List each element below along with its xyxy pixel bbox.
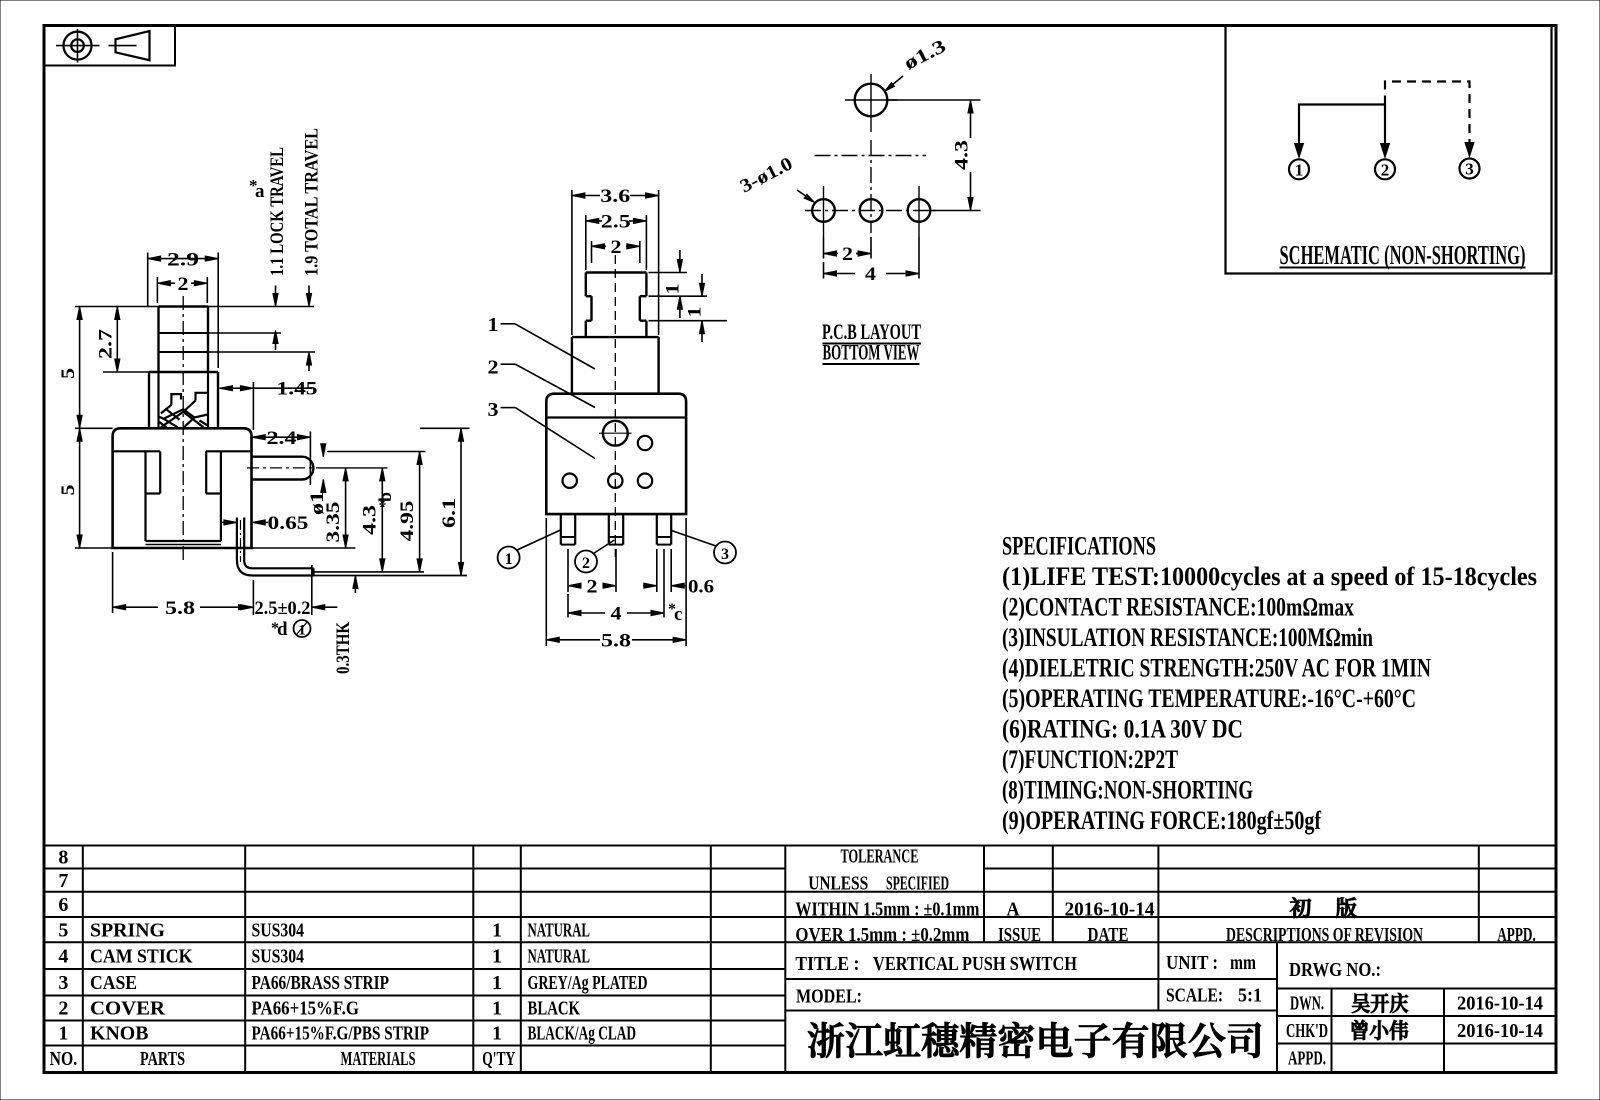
label 3-dia1.0 (737, 153, 815, 202)
svg-text:(9)OPERATING FORCE:180gf±50gf: (9)OPERATING FORCE:180gf±50gf (1002, 806, 1321, 835)
svg-text:PARTS: PARTS (140, 1048, 185, 1070)
dim 5 lower side (58, 428, 113, 548)
svg-text:1: 1 (492, 1023, 502, 1045)
svg-text:1: 1 (58, 1023, 68, 1045)
svg-text:APPD.: APPD. (1288, 1048, 1326, 1070)
svg-text:1: 1 (492, 945, 502, 967)
svg-text:0.65: 0.65 (268, 513, 309, 534)
svg-text:4: 4 (58, 945, 68, 967)
svg-text:c: c (674, 604, 682, 625)
svg-text:BLACK/Ag CLAD: BLACK/Ag CLAD (528, 1023, 637, 1045)
dim 5.8 front (546, 518, 686, 651)
schematic pin circle 3 (1460, 159, 1480, 179)
front centerline (614, 255, 616, 557)
svg-text:BLACK: BLACK (528, 998, 581, 1020)
svg-text:1: 1 (492, 998, 502, 1020)
svg-text:(2)CONTACT RESISTANCE:100mΩmax: (2)CONTACT RESISTANCE:100mΩmax (1002, 593, 1354, 622)
svg-text:DESCRIPTIONS OF REVISION: DESCRIPTIONS OF REVISION (1226, 924, 1423, 946)
front big hole (599, 421, 632, 446)
side view bent pin centerline (241, 520, 316, 572)
svg-text:(3)INSULATION RESISTANCE:100MΩ: (3)INSULATION RESISTANCE:100MΩmin (1002, 623, 1373, 652)
svg-text:4: 4 (611, 604, 623, 625)
pcb hole 1 (812, 186, 835, 237)
svg-text:2016-10-14: 2016-10-14 (1065, 899, 1155, 921)
front knob neck (586, 296, 647, 321)
svg-text:0.3THK: 0.3THK (333, 622, 354, 674)
label *d circled-1 (271, 619, 311, 640)
svg-text:1: 1 (488, 314, 499, 336)
svg-text:WITHIN 1.5mm : ±0.1mm: WITHIN 1.5mm : ±0.1mm (795, 899, 979, 921)
side view knob inner line b (159, 351, 209, 353)
svg-text:PA66+15%F.G: PA66+15%F.G (252, 998, 360, 1020)
svg-text:1: 1 (663, 284, 684, 295)
svg-text:(7)FUNCTION:2P2T: (7)FUNCTION:2P2T (1002, 745, 1178, 774)
svg-text:(6)RATING: 0.1A 30V DC: (6)RATING: 0.1A 30V DC (1002, 715, 1243, 744)
svg-text:4.95: 4.95 (397, 501, 418, 542)
label *a (249, 176, 265, 202)
svg-text:2: 2 (587, 576, 598, 597)
dim 2 front knob (592, 237, 640, 263)
dim 4.3*b (360, 468, 396, 572)
caption SCHEMATIC NON-SHORTING (1280, 240, 1526, 270)
dim 4 front pins (568, 549, 664, 625)
svg-text:5: 5 (58, 919, 68, 941)
front small hole upper right (638, 436, 652, 450)
front hole row left (563, 474, 577, 488)
svg-text:a: a (255, 181, 265, 202)
svg-text:NO.: NO. (50, 1048, 78, 1070)
svg-text:6.1: 6.1 (439, 498, 460, 528)
schematic arrow pin2 (1381, 144, 1390, 158)
schematic box (1226, 26, 1552, 274)
dim phi1 (307, 444, 328, 515)
svg-text:BOTTOM VIEW: BOTTOM VIEW (823, 340, 920, 365)
side view right slot (206, 451, 221, 541)
schematic pin circle 2 (1375, 159, 1395, 179)
svg-text:COVER: COVER (90, 998, 166, 1020)
pcb holes centerline (805, 210, 938, 212)
dim 2 front pins (568, 549, 616, 597)
svg-text:MATERIALS: MATERIALS (341, 1048, 416, 1070)
svg-text:5.8: 5.8 (165, 598, 195, 619)
schematic wire 1-2 solid (1299, 105, 1385, 148)
pcb hole 3 (908, 186, 931, 237)
parts table header (50, 1048, 516, 1070)
svg-text:DRWG NO.:: DRWG NO.: (1289, 959, 1381, 981)
schematic pin circle 1 (1289, 159, 1309, 179)
side view knob inner line a (159, 332, 209, 334)
svg-text:1: 1 (492, 972, 502, 994)
svg-text:2: 2 (842, 244, 853, 265)
dim 1.1 lock travel arrows (273, 286, 278, 351)
svg-text:1.1 LOCK TRAVEL: 1.1 LOCK TRAVEL (267, 147, 288, 276)
svg-text:1.45: 1.45 (277, 379, 318, 400)
svg-text:2: 2 (582, 555, 590, 572)
side view left slot (146, 451, 161, 541)
svg-text:DWN.: DWN. (1290, 993, 1324, 1015)
svg-text:(4)DIELETRIC STRENGTH:250V AC: (4)DIELETRIC STRENGTH:250V AC FOR 1MIN (1002, 654, 1431, 683)
svg-text:SUS304: SUS304 (252, 945, 305, 967)
dim 5.8 side (113, 552, 252, 619)
svg-text:A: A (1007, 899, 1020, 921)
pcb vertical centerline (870, 140, 872, 233)
side view bent pin (237, 518, 314, 576)
svg-text:mm: mm (1230, 952, 1256, 974)
unit cell (1166, 952, 1256, 974)
svg-text:TITLE :: TITLE : (795, 953, 859, 975)
parts table grid (44, 846, 1556, 1072)
svg-text:Q'TY: Q'TY (482, 1048, 515, 1070)
svg-text:4.3: 4.3 (952, 140, 973, 170)
dim 4 pcb (824, 237, 920, 285)
svg-text:2016-10-14: 2016-10-14 (1457, 1020, 1543, 1042)
svg-text:SPRING: SPRING (90, 919, 165, 941)
dim 5 upper side (58, 307, 82, 429)
side view side pin (252, 457, 314, 480)
schematic arrow pin3 (1465, 143, 1474, 157)
svg-text:3: 3 (1465, 160, 1474, 179)
svg-text:SPECIFICATIONS: SPECIFICATIONS (1002, 532, 1156, 561)
tolerance header (808, 846, 949, 895)
caption PCB LAYOUT (822, 319, 921, 344)
title row (795, 953, 1077, 975)
schematic wire 2-3 dashed (1385, 82, 1470, 148)
pcb big hole crosshair (845, 74, 898, 132)
dim 2.9 side (148, 249, 219, 368)
front pin 2 (609, 514, 623, 545)
svg-text:8: 8 (58, 847, 68, 869)
title block grid (785, 846, 1556, 1072)
dim 4.95 (327, 452, 426, 572)
side view plunger sides in collar (159, 372, 209, 428)
projection symbol box (44, 26, 175, 66)
svg-text:5: 5 (58, 485, 79, 496)
svg-text:5:1: 5:1 (1238, 985, 1262, 1007)
side view bent pin lower surface ext (252, 575, 467, 577)
pcb hole 2 (860, 199, 883, 222)
dim 4.3 pcb (888, 100, 981, 211)
case bottom extension right (252, 547, 356, 549)
schematic arrow pin1 (1295, 144, 1304, 158)
leader 3 case (488, 399, 596, 459)
svg-text:TOLERANCE: TOLERANCE (841, 846, 919, 868)
svg-text:5: 5 (58, 368, 79, 379)
svg-text:2: 2 (178, 274, 189, 295)
dim 1 cap height (649, 250, 708, 318)
side view knob centerline (182, 296, 184, 560)
svg-text:GREY/Ag PLATED: GREY/Ag PLATED (528, 972, 648, 994)
front hole row right (638, 474, 652, 488)
side view case outline (113, 428, 252, 548)
svg-text:2: 2 (1381, 161, 1390, 180)
dim 1.45 (220, 379, 318, 431)
dim 3.6 front (572, 186, 659, 335)
svg-text:SCHEMATIC (NON-SHORTING): SCHEMATIC (NON-SHORTING) (1280, 240, 1526, 270)
svg-text:VERTICAL PUSH SWITCH: VERTICAL PUSH SWITCH (873, 953, 1077, 975)
svg-text:2: 2 (611, 237, 622, 258)
svg-text:NATURAL: NATURAL (528, 945, 591, 967)
svg-text:2.4: 2.4 (267, 428, 298, 449)
svg-text:1: 1 (505, 551, 513, 568)
dim 2.5+-0.2 (240, 565, 337, 619)
svg-text:2.5±0.2: 2.5±0.2 (255, 598, 311, 619)
svg-text:3: 3 (488, 399, 499, 421)
company name zhejiang hongsui precision electronics co ltd (808, 1022, 1261, 1058)
svg-text:NATURAL: NATURAL (528, 919, 591, 941)
svg-text:CASE: CASE (90, 972, 137, 994)
front case outline (546, 394, 686, 514)
svg-text:2.9: 2.9 (167, 249, 199, 270)
svg-text:APPD.: APPD. (1497, 924, 1536, 946)
dim 0.65 (222, 513, 309, 534)
specifications text block (1002, 532, 1537, 836)
dim 2.5 front (586, 212, 647, 271)
projection symbol cone view (109, 31, 150, 60)
front knob cap (586, 273, 647, 297)
svg-text:1: 1 (685, 307, 706, 318)
svg-text:7: 7 (58, 870, 68, 892)
svg-text:2: 2 (58, 998, 68, 1020)
svg-text:0.6: 0.6 (688, 576, 714, 597)
front pin 3 (657, 514, 671, 545)
side knob top extension line (75, 306, 314, 308)
svg-text:3.6: 3.6 (600, 186, 630, 207)
svg-text:KNOB: KNOB (90, 1023, 149, 1045)
dim 1.9 total travel arrows (306, 286, 311, 372)
projection symbol circle view (56, 29, 100, 63)
terminal label circled 1 (498, 530, 561, 569)
svg-text:(1)LIFE TEST:10000cycles at a: (1)LIFE TEST:10000cycles at a speed of 1… (1002, 562, 1537, 591)
side view case inner top line (113, 450, 252, 452)
svg-text:CHK'D: CHK'D (1286, 1020, 1328, 1042)
svg-text:ISSUE: ISSUE (998, 924, 1041, 946)
side view cover collar (149, 372, 218, 428)
svg-text:CAM STICK: CAM STICK (90, 945, 193, 967)
svg-text:2: 2 (488, 357, 499, 379)
svg-text:4: 4 (865, 264, 877, 285)
svg-text:MODEL:: MODEL: (796, 986, 862, 1008)
svg-text:1: 1 (492, 919, 502, 941)
svg-text:6: 6 (58, 894, 68, 916)
terminal label circled 3 (672, 531, 737, 564)
dim 2.4 (252, 428, 310, 485)
side view bent pin top ext (314, 571, 425, 573)
svg-text:(5)OPERATING TEMPERATURE:-16°C: (5)OPERATING TEMPERATURE:-16°C-+60°C (1002, 684, 1416, 713)
dim 3.35 (323, 468, 348, 548)
total travel extension line (208, 351, 315, 353)
front cover (572, 337, 659, 394)
svg-text:4.3: 4.3 (360, 505, 381, 535)
dim 6.1 side (420, 428, 470, 575)
chkd name zeng xiaowei (1352, 1020, 1408, 1040)
svg-text:3: 3 (58, 972, 68, 994)
svg-text:d: d (277, 619, 288, 640)
dim 0.6 front pin3 (643, 549, 714, 597)
front knob base (586, 321, 647, 337)
dim 2 pcb (824, 237, 872, 265)
pcb big hole (855, 84, 888, 117)
revision text chu-ban (initial release) (1290, 897, 1357, 918)
case top extension left (75, 427, 113, 429)
side view cam profile (159, 393, 208, 427)
pcb mid centerline (815, 155, 927, 157)
parts table rows text (58, 847, 647, 1045)
lock travel extension line (208, 332, 281, 334)
svg-text:1: 1 (1295, 161, 1304, 180)
terminal label circled 2 (575, 540, 614, 573)
side view case inner bottom (146, 541, 221, 545)
svg-text:5.8: 5.8 (601, 630, 631, 651)
svg-text:UNLESS: UNLESS (808, 873, 868, 895)
svg-text:2.7: 2.7 (96, 328, 117, 359)
front hole row middle (608, 474, 622, 488)
svg-text:(8)TIMING:NON-SHORTING: (8)TIMING:NON-SHORTING (1002, 776, 1253, 805)
front case divider line (546, 416, 686, 418)
svg-text:PA66+15%F.G/PBS STRIP: PA66+15%F.G/PBS STRIP (252, 1023, 430, 1045)
label *c front (668, 601, 682, 625)
caption BOTTOM VIEW (823, 340, 920, 365)
side view side pin centerline (247, 467, 388, 469)
svg-text:2.5: 2.5 (601, 212, 631, 233)
dim 2 side knob (157, 274, 207, 303)
svg-text:b: b (375, 492, 395, 502)
dim 2.7 side (96, 307, 150, 373)
dim 0.3THK (333, 576, 358, 675)
svg-text:OVER 1.5mm : ±0.2mm: OVER 1.5mm : ±0.2mm (795, 924, 969, 946)
leader 2 cover (488, 357, 596, 408)
svg-text:PA66/BRASS STRIP: PA66/BRASS STRIP (252, 972, 390, 994)
side view knob outline (159, 307, 209, 373)
scale cell (1166, 985, 1262, 1007)
svg-text:SPECIFIED: SPECIFIED (886, 873, 949, 895)
svg-text:SCALE:: SCALE: (1166, 985, 1223, 1007)
svg-text:2016-10-14: 2016-10-14 (1457, 993, 1543, 1015)
svg-text:UNIT :: UNIT : (1166, 952, 1218, 974)
label dia1.3 (885, 36, 950, 92)
svg-text:DATE: DATE (1088, 924, 1129, 946)
svg-text:1.9 TOTAL TRAVEL: 1.9 TOTAL TRAVEL (302, 128, 323, 276)
leader 1 knob (488, 314, 596, 369)
dwn name wu kaiqing (1352, 993, 1408, 1013)
svg-text:3.35: 3.35 (323, 502, 344, 543)
front pin 1 (561, 514, 575, 545)
svg-text:SUS304: SUS304 (252, 919, 305, 941)
svg-text:3: 3 (721, 546, 729, 563)
dim 1 neck height (649, 274, 728, 342)
